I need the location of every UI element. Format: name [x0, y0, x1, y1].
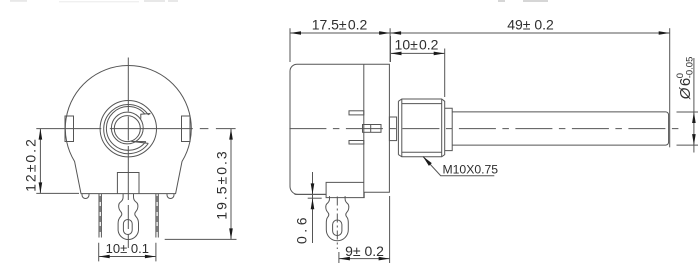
svg-text:10± 0.1: 10± 0.1	[106, 241, 149, 256]
C-ring lower wedge	[131, 141, 148, 143]
side pin centerline	[336, 197, 338, 250]
rear hub boss	[389, 117, 396, 141]
rotor inner circle 2	[114, 116, 140, 142]
svg-text:0.6: 0.6	[293, 214, 309, 244]
left side lug	[65, 116, 74, 142]
front keyhole terminal	[118, 194, 138, 240]
rotor C-ring inner arc	[106, 106, 145, 150]
side horizontal centerline	[289, 128, 678, 130]
svg-text:-0.05: -0.05	[685, 57, 696, 79]
body outline (circle with flat trapezoid bottom)	[65, 66, 191, 194]
label M10X0.75 with leader	[423, 156, 498, 176]
front keyhole hole	[123, 220, 132, 235]
side keyhole hole	[333, 220, 342, 236]
shaft collar ring	[445, 108, 453, 150]
bushing full-diameter lines	[402, 99, 442, 157]
svg-text:Ø6: Ø6	[677, 78, 694, 101]
rotor C-ring outer arc with end flare	[104, 105, 151, 154]
threaded bushing	[398, 99, 444, 157]
thread root lines	[402, 104, 442, 153]
dimension 9±0.2 (pin offset)	[339, 196, 390, 263]
dimension 49±0.2	[390, 17, 670, 148]
dimension 17.5±0.2	[290, 17, 390, 63]
dimension 10±0.2 (bushing)	[391, 36, 445, 97]
front horizontal centerline	[36, 128, 235, 130]
dimension φ6 0/-0.05 (shaft dia)	[675, 57, 698, 153]
upper crimp tab	[349, 111, 364, 115]
side keyhole terminal	[326, 196, 349, 241]
svg-text:M10X0.75: M10X0.75	[443, 162, 499, 176]
svg-text:19.5±0.3: 19.5±0.3	[213, 149, 229, 219]
left foot	[82, 194, 89, 199]
right pin	[156, 194, 158, 238]
dimension 10±0.1	[99, 241, 156, 261]
right foot	[167, 194, 174, 199]
cover plate right section	[326, 64, 389, 197]
dimension 0.6 (pin thickness)	[293, 172, 326, 244]
left pin	[99, 194, 101, 238]
rotor inner circle 1	[111, 112, 143, 144]
C-ring upper cap and hook	[141, 114, 151, 119]
lower crimp tab	[349, 141, 364, 145]
right pin dashed center	[156, 196, 158, 236]
svg-text:9± 0.2: 9± 0.2	[345, 243, 384, 259]
front vertical centerline	[127, 58, 129, 249]
dimension 19.5±0.3	[165, 129, 237, 240]
side body outline	[290, 64, 364, 194]
right side lug	[182, 116, 191, 142]
svg-text:17.5±0.2: 17.5±0.2	[312, 17, 368, 33]
svg-text:12±0.2: 12±0.2	[22, 137, 38, 192]
cover seam vertical line	[363, 64, 365, 197]
left pin dashed center	[99, 196, 101, 236]
dimension 12±0.2	[22, 129, 79, 194]
svg-text:49± 0.2: 49± 0.2	[507, 17, 554, 33]
top edge cropped text remnants	[10, 0, 548, 2]
rotor outer circle	[100, 101, 156, 157]
center bottom tab	[117, 173, 139, 194]
center shaft rect	[363, 125, 382, 133]
shaft	[452, 112, 668, 145]
svg-text:10±0.2: 10±0.2	[395, 37, 439, 53]
center shaft rect divider	[370, 125, 372, 133]
